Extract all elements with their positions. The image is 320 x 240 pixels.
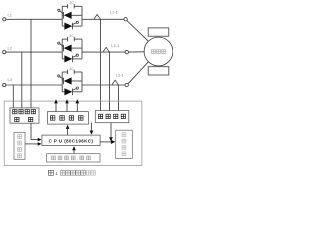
wire CT2 to current detection — [109, 52, 111, 110]
wire L2 to module 2 — [6, 51, 62, 53]
thyristor V2a gate terminal — [58, 42, 60, 44]
thyristor V3a gate terminal — [58, 75, 60, 77]
thyristor V2b cathode wire — [72, 58, 82, 60]
wire L3 to module 3 — [6, 84, 62, 86]
thyristor V1b gate lead — [72, 23, 76, 25]
block isolated output box — [116, 130, 133, 158]
label CPU (80C196KC) — [49, 138, 94, 143]
label L2 — [7, 45, 12, 50]
node L1-1 output terminal — [124, 18, 127, 21]
label current detection (dian liu jian ce) — [98, 114, 125, 118]
thyristor V1a cathode bar — [63, 12, 65, 19]
svg-text:L1: L1 — [7, 12, 12, 17]
label L3-1 — [116, 73, 125, 78]
bypass contact JC3 wire right — [74, 71, 82, 73]
thyristor V3a gate lead — [60, 77, 64, 80]
svg-text:,: , — [77, 157, 78, 161]
node L2-1 output terminal — [125, 50, 128, 53]
bypass contact JC3 bars — [68, 70, 75, 74]
wire L3 tap to sync detection — [12, 85, 14, 108]
wire L1 to module 1 — [6, 18, 62, 20]
node L3-1 output terminal — [125, 83, 128, 86]
thyristor V2a cathode wire — [62, 47, 63, 49]
thyristor V3b cathode wire — [72, 91, 82, 93]
bypass contact JC1 wire right — [74, 5, 82, 7]
controller enclosure — [4, 101, 142, 166]
bypass contact JC2 wire left — [62, 38, 67, 40]
thyristor V2a — [64, 45, 72, 52]
thyristor V1b — [64, 23, 72, 30]
motor frame top — [148, 28, 169, 36]
thyristor V2b anode wire — [62, 58, 64, 60]
block trigger pulse box — [48, 112, 89, 125]
thyristor V3a cathode bar — [63, 78, 65, 85]
thyristor V3a anode wire — [72, 80, 83, 82]
thyristor V3a — [64, 77, 72, 84]
label settings input (she zhi shu ru) vertical — [18, 135, 22, 158]
label power sync detection (dian yuan tong bu) — [13, 110, 36, 114]
label isolated output (ge li shu chu) vertical — [122, 133, 126, 156]
wire L2-1 to motor — [129, 51, 145, 53]
thyristor V1b gate terminal — [76, 21, 78, 23]
label keyboard control display (jian pan kong zhi xian shi) — [52, 156, 91, 161]
block keyboard control display box — [47, 154, 101, 162]
label sync detection row2 (jian ce) — [15, 117, 33, 121]
svg-text:L3-1: L3-1 — [116, 73, 125, 78]
thyristor V3b gate terminal — [76, 87, 78, 89]
thyristor V1a gate lead — [60, 11, 64, 14]
bypass contact JC1 wire left — [62, 5, 67, 7]
svg-text:C P U (80C196KC): C P U (80C196KC) — [49, 138, 94, 143]
current transformer CT2 — [103, 47, 110, 52]
bypass contact JC1 bars — [68, 4, 75, 8]
thyristor V2b gate lead — [72, 56, 76, 58]
thyristor V1a cathode wire — [62, 14, 63, 16]
label L2-1 — [111, 43, 120, 48]
trigger pulse line to SCR gates at x=77.3 — [76, 99, 80, 111]
motor label (dian dong ji) — [152, 50, 166, 54]
thyristor V2b gate terminal — [76, 54, 78, 56]
bypass contact JC2 bars — [68, 37, 75, 41]
thyristor module 3 left bus — [61, 72, 63, 92]
thyristor V2a cathode bar — [63, 45, 65, 52]
svg-text:L1-1: L1-1 — [110, 9, 119, 14]
svg-text:L3: L3 — [7, 77, 12, 82]
thyristor V2b cathode bar — [71, 56, 73, 63]
motor M — [144, 37, 173, 66]
current transformer CT1 — [94, 15, 101, 20]
wire CT3 to current detection — [118, 85, 120, 111]
svg-text:L2: L2 — [7, 45, 12, 50]
label L1-1 — [110, 9, 119, 14]
thyristor V3b — [64, 88, 72, 95]
wire L2 tap to sync detection — [21, 52, 23, 108]
bypass contact JC3 wire left — [62, 71, 67, 73]
thyristor V2b — [64, 55, 72, 62]
thyristor V3b anode wire — [62, 91, 64, 93]
trigger pulse line to SCR gates at x=67.0 — [65, 99, 69, 111]
wire current detection to isolated output node — [109, 123, 113, 142]
label JC module 2 — [69, 34, 74, 38]
thyristor module 2 left bus — [61, 39, 63, 59]
bypass contact JC2 wire right — [74, 38, 82, 40]
block settings input box — [14, 132, 25, 159]
svg-text:L2-1: L2-1 — [111, 43, 120, 48]
block current detection box — [95, 111, 129, 123]
wire module 3 to L3-1 — [82, 84, 125, 86]
wire CPU to trigger pulse — [66, 125, 70, 135]
thyristor module 2 right bus — [81, 39, 83, 59]
wire module 2 to L2-1 — [82, 51, 125, 53]
thyristor V1b cathode wire — [72, 25, 82, 27]
svg-text:JC: JC — [69, 34, 74, 38]
thyristor V3b cathode bar — [71, 89, 73, 96]
block power sync detection box — [10, 108, 39, 123]
node L2 input terminal — [3, 51, 6, 54]
thyristor V3b gate lead — [72, 89, 76, 91]
thyristor V1a — [64, 12, 72, 19]
current transformer CT3 — [112, 80, 119, 85]
label L3 — [7, 77, 12, 82]
wire L1 tap to sync detection — [30, 19, 32, 108]
thyristor V2a anode wire — [72, 47, 83, 49]
thyristor V1b cathode bar — [71, 23, 73, 30]
wire L1-1 to motor — [127, 21, 148, 42]
node L3 input terminal — [3, 83, 6, 86]
motor frame bottom — [148, 67, 169, 75]
block CPU box — [42, 135, 100, 146]
wire CT1 to current detection — [100, 19, 102, 110]
wire keyboard to CPU — [72, 146, 76, 154]
wire settings input to CPU — [25, 142, 42, 146]
wire sync detection to CPU — [31, 123, 42, 141]
caption figure 1 (tu 1 dian qi yuan li tu) — [48, 170, 95, 176]
label trigger pulse (chu fa mai chong) — [50, 116, 83, 121]
wire L3-1 to motor — [128, 62, 148, 84]
label JC module 1 — [69, 1, 74, 5]
svg-text:1: 1 — [55, 171, 58, 176]
thyristor V1a anode wire — [72, 14, 83, 16]
wire current detection to CPU — [90, 123, 94, 135]
thyristor module 3 right bus — [81, 72, 83, 92]
thyristor V2a gate lead — [60, 44, 64, 47]
wire module 1 to L1-1 — [82, 18, 124, 20]
thyristor V1a gate terminal — [58, 9, 60, 11]
wire CPU to isolated output — [100, 140, 115, 144]
label L1 — [7, 12, 12, 17]
trigger pulse line to SCR gates at x=56.0 — [54, 99, 58, 111]
svg-text:JC: JC — [69, 1, 74, 5]
thyristor V1b anode wire — [62, 25, 64, 27]
thyristor V3a cathode wire — [62, 80, 63, 82]
thyristor module 1 right bus — [81, 6, 83, 26]
svg-text:JC: JC — [69, 67, 74, 71]
node L1 input terminal — [3, 18, 6, 21]
label JC module 3 — [69, 67, 74, 71]
thyristor module 1 left bus — [61, 6, 63, 26]
